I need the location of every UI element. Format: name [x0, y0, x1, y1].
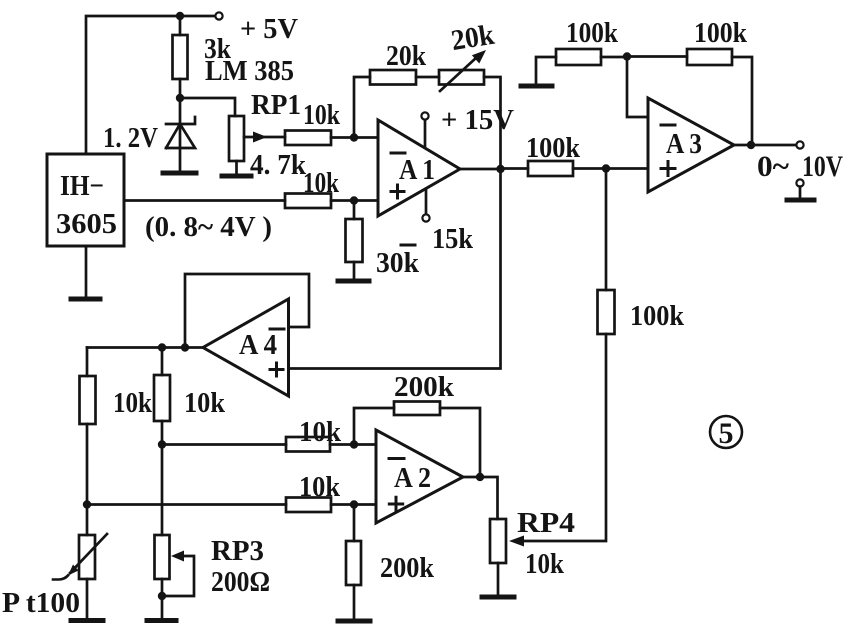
svg-text:15k: 15k	[432, 223, 474, 255]
svg-text:100k: 100k	[526, 133, 580, 164]
wire supply terminal stub	[180, 15, 215, 18]
wire A2 inverting net	[162, 443, 286, 446]
svg-text:A 3: A 3	[666, 128, 702, 160]
diode LM385 zener 1.2V	[166, 98, 195, 172]
wire A1 output to A4 non-inverting input	[289, 169, 501, 369]
node A3 non-inverting input	[602, 164, 610, 172]
wire A1 feedback riser	[354, 77, 370, 138]
op-amp A3	[648, 98, 734, 192]
svg-text:RP4: RP4	[517, 507, 575, 539]
ground under RP1	[222, 174, 251, 179]
wire A3 inverting input	[627, 57, 648, 118]
resistor 10k lower input	[285, 194, 354, 209]
svg-text:3605: 3605	[56, 208, 117, 240]
wire A2 non-inverting input	[354, 503, 376, 506]
resistor 10k A2 inverting	[286, 437, 354, 452]
node A1 inverting input	[350, 133, 358, 141]
op-amp A1	[378, 120, 460, 216]
svg-text:IH−: IH−	[60, 170, 104, 202]
resistor 100k vertical	[518, 169, 615, 542]
node bridge column top	[158, 343, 166, 351]
wire A2 non-inverting net	[87, 503, 286, 506]
node A1 output	[496, 165, 504, 173]
svg-text:1. 2V: 1. 2V	[103, 122, 158, 154]
node junction rail / 3k	[176, 12, 184, 20]
ground under Pt100	[71, 618, 103, 623]
wire A1 inverting input	[354, 136, 378, 139]
ground under 30k	[338, 279, 369, 284]
resistor 20k variable	[439, 50, 486, 91]
resistor 10k upper input	[285, 131, 354, 146]
wire to A3 non-inverting input	[606, 167, 648, 170]
node output terminal	[796, 141, 803, 148]
potentiometer RP4	[490, 519, 524, 595]
node junction 3k / LM385 / RP1	[176, 94, 184, 102]
wire IH-3605 output	[124, 199, 285, 202]
resistor 3k	[173, 16, 188, 98]
svg-text:5: 5	[719, 417, 734, 450]
resistor 100k to A3	[501, 161, 607, 176]
potentiometer RP3	[155, 535, 195, 618]
resistor 100k A3 feedback	[627, 49, 752, 145]
label figure number 5	[710, 416, 742, 450]
resistor 10k second column	[154, 348, 170, 445]
op-amp A2	[376, 430, 463, 523]
wire junction to RP1 top	[180, 98, 235, 116]
node +5V terminal	[215, 12, 222, 19]
ground at 100k A3 input	[521, 84, 552, 89]
node A4 feedback	[181, 343, 189, 351]
svg-text:100k: 100k	[566, 18, 618, 49]
resistor 10k left column	[80, 348, 96, 505]
resistor 200k A2 feedback	[354, 402, 480, 478]
svg-text:RP1: RP1	[251, 90, 301, 121]
svg-text:10k: 10k	[299, 472, 340, 503]
ground under RP4	[482, 595, 514, 600]
wire A2 inverting input	[354, 443, 376, 446]
resistor 30k	[346, 201, 363, 281]
svg-text:200k: 200k	[380, 552, 435, 584]
ground under 200k	[338, 619, 370, 624]
svg-text:(0. 8~ 4V ): (0. 8~ 4V )	[145, 211, 272, 243]
node A2 feedback tie	[476, 473, 484, 481]
pin A1 +supply	[421, 112, 428, 147]
resistor 100k grounded at A3	[536, 49, 627, 84]
wire A1 non-inverting input	[354, 199, 378, 202]
ground at output	[787, 198, 814, 203]
IC IH-3605 sensor box	[47, 154, 124, 246]
svg-text:10k: 10k	[525, 548, 565, 580]
node left column tap	[83, 500, 91, 508]
wire A2 output	[463, 477, 498, 519]
wire +5V rail from IH-3605 top to supply terminal	[86, 16, 180, 154]
resistor 10k A2 non-inverting	[286, 498, 354, 513]
sensor Pt100	[53, 505, 107, 619]
wire between 20k resistors	[416, 76, 439, 79]
svg-text:200Ω: 200Ω	[211, 566, 270, 598]
wire A3 output	[734, 144, 796, 147]
resistor 200k grounded	[346, 505, 361, 620]
wire second column to RP3	[161, 445, 164, 536]
svg-text:20k: 20k	[386, 40, 427, 72]
svg-text:100k: 100k	[694, 18, 747, 49]
svg-text:10k: 10k	[184, 387, 226, 419]
svg-text:4. 7k: 4. 7k	[250, 149, 307, 181]
svg-text:30k: 30k	[376, 247, 420, 279]
node A3 inverting junction	[623, 52, 631, 60]
ground under RP3	[147, 618, 176, 623]
svg-text:10k: 10k	[303, 100, 340, 131]
potentiometer RP1 4.7k	[229, 116, 285, 175]
wire IH-3605 ground stem	[85, 246, 88, 298]
svg-text:RP3: RP3	[211, 535, 264, 567]
svg-text:20k: 20k	[449, 19, 497, 57]
node A3 output	[747, 141, 755, 149]
node output ground terminal	[796, 179, 803, 186]
wire A1 output	[460, 168, 501, 171]
svg-text:+ 5V: + 5V	[240, 13, 298, 45]
svg-text:200k: 200k	[394, 372, 454, 403]
ground under LM385	[163, 171, 196, 176]
node A2 inverting input	[350, 440, 358, 448]
op-amp A4	[203, 299, 289, 396]
svg-text:LM 385: LM 385	[205, 56, 294, 87]
svg-text:+ 15V: + 15V	[441, 105, 514, 136]
svg-text:A 2: A 2	[394, 462, 431, 494]
wire A4 output line	[87, 346, 203, 349]
svg-text:A 1: A 1	[399, 154, 435, 186]
svg-text:100k: 100k	[630, 301, 684, 332]
node A2 non-inverting input	[350, 500, 358, 508]
svg-text:0~: 0~	[757, 150, 789, 183]
wire 20k to A1 output node	[484, 77, 501, 169]
svg-text:10k: 10k	[303, 168, 339, 199]
svg-text:10V: 10V	[802, 150, 843, 183]
node second column tap	[158, 440, 166, 448]
ground under IH-3605	[71, 297, 100, 302]
node RP3 wiper tie	[158, 592, 166, 600]
resistor 20k fixed feedback	[370, 70, 416, 85]
svg-text:P t100: P t100	[2, 587, 80, 619]
wire output ground stem	[799, 187, 802, 198]
svg-text:A 4: A 4	[239, 329, 277, 361]
svg-text:10k: 10k	[299, 417, 341, 448]
wire A4 feedback loop	[185, 274, 309, 348]
pin A1 -supply	[422, 190, 429, 222]
svg-text:10k: 10k	[113, 387, 153, 419]
label -15k minus	[401, 244, 415, 247]
node A1 non-inverting input	[350, 196, 358, 204]
